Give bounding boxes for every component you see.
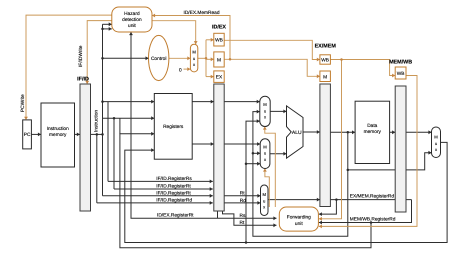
svg-text:ID/EX: ID/EX [212,24,226,30]
svg-text:MEM/WB: MEM/WB [389,60,412,66]
register IF/ID [80,84,91,211]
PC [23,120,32,149]
registers [154,94,192,160]
mux control stall [190,44,197,72]
wire ID/EX WB to EX/MEM WB [224,40,320,59]
wire ALU result to write-back mux [348,169,395,171]
wire Rt line to destination mux [224,195,260,197]
wire ID/EX.RegisterRt to hazard unit and Rs line [131,32,277,218]
wire IF/ID.RegisterRt line2 [103,195,213,197]
wire read data 2 to ALU mux B [192,143,260,145]
svg-text:Instruction: Instruction [94,110,100,132]
label mux destination letters [262,192,266,210]
svg-text:M: M [263,102,267,107]
wire ID/EX.MemRead to hazard unit [152,16,230,60]
svg-text:IF/ID.RegisterRs: IF/ID.RegisterRs [156,176,192,182]
register EX/MEM [320,84,331,207]
svg-text:Control: Control [151,56,166,62]
wire mux B to ALU [270,153,287,155]
wire hazard unit to control mux select [152,21,196,45]
svg-text:WB: WB [215,38,223,44]
wire read register 2 [103,117,155,119]
wire EX/MEM RegWrite to forwarding unit [319,60,342,219]
arrowheads black right [38,133,41,137]
data memory [355,101,390,163]
svg-text:Data: Data [367,123,377,129]
label mux B letters [263,144,267,162]
svg-text:Rd: Rd [240,198,246,204]
svg-text:WB: WB [397,71,405,77]
svg-text:0: 0 [179,67,182,73]
wire MEM/WB.RegisterRd to forwarding unit [319,200,412,223]
wire MEM/WB RegWrite to forwarding unit [319,76,417,227]
svg-text:Hazard: Hazard [124,11,140,17]
wire ALU result to data memory address [330,131,355,133]
svg-text:ID/EX.RegisterRt: ID/EX.RegisterRt [157,212,194,218]
wire PCWrite from hazard unit to PC [26,15,112,120]
svg-text:Instruction: Instruction [47,126,69,132]
mux destination register [261,185,269,216]
wire instruction vertical n3 [107,102,109,182]
wire read data 1 to ALU mux A [192,101,260,103]
svg-text:Registers: Registers [163,124,184,130]
wire write data feedback [125,142,447,242]
wire ALU result to write-back mux part2 [406,153,432,170]
wire ID/EX.RegisterRs to forwarding unit [217,211,219,218]
svg-text:IF/ID: IF/ID [77,77,89,83]
wire instruction vertical n1 [96,134,98,203]
svg-text:memory: memory [364,130,382,135]
wire EX/MEM WB to MEM/WB WB [330,60,395,76]
wire opcode to control [103,57,149,59]
wire read register 1 [103,101,155,103]
wire IF/ID.RegisterRd line [97,202,213,204]
svg-text:memory: memory [49,133,67,138]
register MEM/WB [395,86,406,212]
hazard detection unit [112,7,152,32]
wire MEM/WB forward branch to mux B [246,163,260,165]
svg-text:detection: detection [122,17,142,23]
svg-text:Rt: Rt [240,190,245,196]
mux ALU B [260,139,270,169]
svg-text:M: M [263,144,267,149]
wire write register feedback [120,134,371,248]
svg-text:IF/ID.RegisterRt: IF/ID.RegisterRt [156,184,191,190]
arrowhead black up into hazard unit [129,32,133,35]
svg-text:ID/EX.MemRead: ID/EX.MemRead [184,10,220,16]
mux write-back [432,127,441,158]
label mux write-back letters [434,135,438,153]
label mux control letters [192,50,196,68]
wire IF/ID.RegisterRs line [108,180,213,182]
wire ALU output to EX/MEM [303,131,320,133]
svg-text:WB: WB [321,58,329,64]
svg-text:M: M [434,135,438,140]
svg-text:IF/ID.RegisterRt: IF/ID.RegisterRt [156,190,191,196]
ID/EX EX box [214,71,224,83]
wire instruction vertical n2 to hazard unit [102,24,104,196]
wire control to mux [169,57,191,59]
svg-text:PC: PC [24,132,31,138]
label mux A letters [263,102,267,120]
wire ID/EX.RegisterRt to forwarding unit [223,211,277,225]
svg-text:EX: EX [216,75,223,81]
svg-text:ALU: ALU [292,130,302,136]
svg-text:Rt: Rt [240,220,245,226]
wire MEM/WB forward path [246,121,260,242]
arrowheads orange [152,14,155,18]
svg-text:M: M [217,57,221,63]
wire Rd line to destination mux [224,202,260,204]
svg-text:IF/ID.RegisterRd: IF/ID.RegisterRd [156,198,192,204]
wire EX/MEM.RegisterRd line [268,199,412,201]
svg-text:PCWrite: PCWrite [20,94,26,112]
instruction memory [41,103,75,167]
MEM/WB WB box [395,67,406,79]
wire IF/IDWrite from hazard unit to IF/ID [87,21,112,84]
EX/MEM WB box [320,55,331,64]
register ID/EX [214,84,224,211]
junction dots orange [229,58,232,61]
svg-text:unit: unit [128,23,136,29]
wire hazard input b [103,28,112,30]
svg-text:M: M [262,192,266,197]
wire instruction vertical n4 [113,118,115,189]
svg-text:EX/MEM: EX/MEM [315,44,337,50]
svg-text:unit: unit [295,221,303,227]
wire instruction memory to IF/ID [75,133,80,135]
wire IF/ID.RegisterRt line1 [114,188,213,190]
svg-text:M: M [323,74,327,80]
junction dots black [96,133,99,136]
wire control mux fan to ID/EX WB M EX [198,57,206,59]
svg-text:Rs: Rs [240,213,246,219]
wire mux A to ALU [270,110,286,112]
svg-text:EX/MEM.RegisterRd: EX/MEM.RegisterRd [350,194,395,200]
wire zero to mux [184,68,191,70]
wire ID/EX M to EX/MEM M [224,59,320,76]
wire EX/MEM.RegisterRd branch to forwarding unit [319,200,337,215]
control unit [149,35,169,80]
wire EX/MEM forward branch to mux B [253,152,260,154]
wire read data output [390,131,432,133]
svg-text:Forwarding: Forwarding [287,215,311,221]
svg-text:MEM/WB.RegisterRd: MEM/WB.RegisterRd [350,217,396,223]
arrowheads black left [319,212,322,216]
wire PC to instruction memory [31,133,41,135]
wire IF/ID instruction bus [91,133,103,135]
ID/EX M box [214,52,224,67]
wire ForwardA select to mux A [265,127,276,208]
svg-text:IF/IDWrite: IF/IDWrite [78,45,84,67]
mux ALU A [260,96,270,126]
ID/EX WB box [214,33,224,46]
wire ForwardB select to mux B [265,169,269,208]
wire EX/MEM forward path [253,112,348,237]
ALU U1 [287,106,304,158]
wire hazard input a [103,23,112,25]
svg-text:M: M [192,50,196,55]
forwarding unit [279,207,318,231]
EX/MEM M box [320,71,331,82]
